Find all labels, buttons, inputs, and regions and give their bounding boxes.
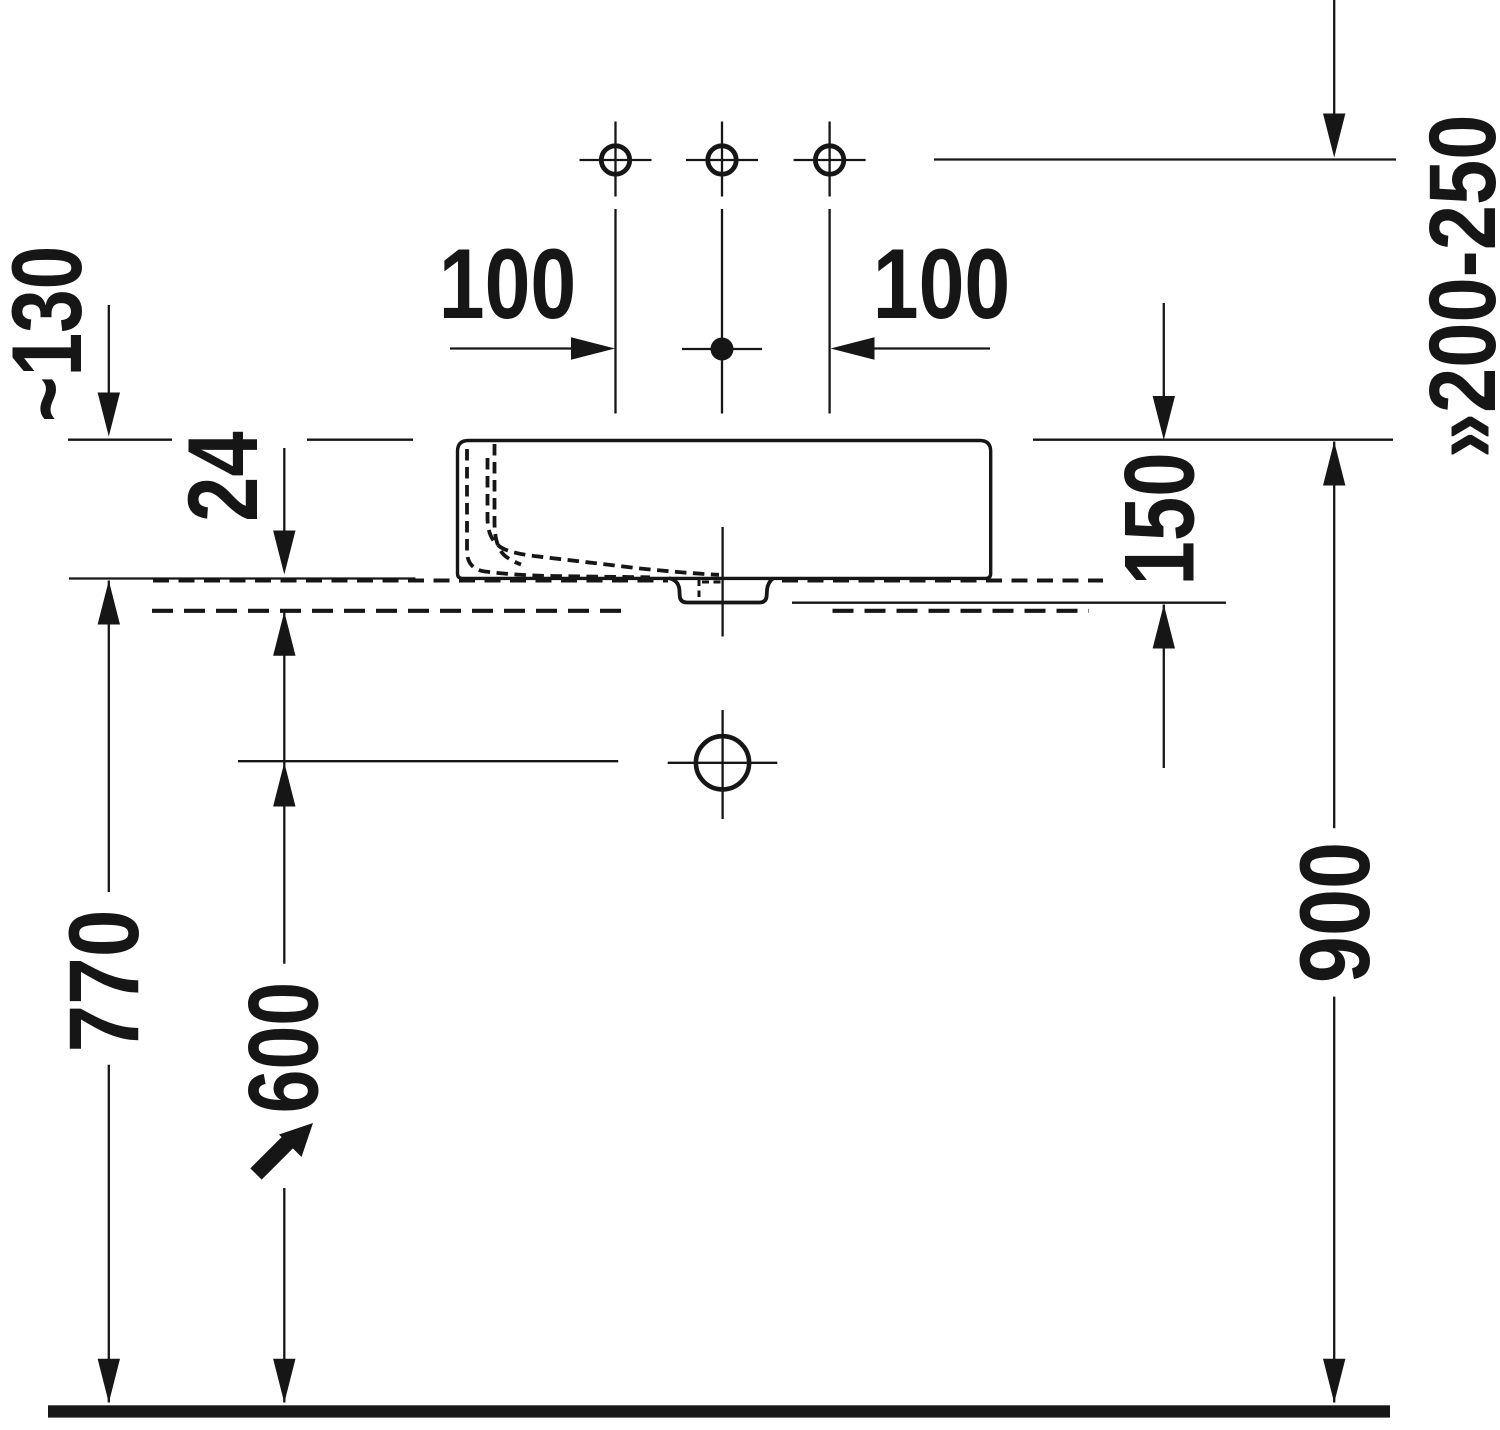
centerline stub below right tap hole — [828, 209, 830, 414]
svg-text:900: 900 — [1279, 842, 1390, 983]
centerline stub below left tap hole — [614, 209, 616, 414]
svg-text:100: 100 — [873, 228, 1011, 339]
600 dimension line lower part — [283, 1188, 285, 1403]
hidden bowl contour inner dashed — [495, 444, 522, 565]
vertical centerline through trap circle — [721, 710, 723, 819]
svg-text:~130: ~130 — [0, 246, 102, 422]
tap hole reference line right — [934, 158, 1396, 160]
drain hidden edge vertical dashed — [698, 580, 701, 599]
washbasin body outline — [458, 441, 991, 579]
basin rim reference line left segment 2 — [307, 439, 413, 441]
dimension 150 upper arrow — [1163, 303, 1165, 398]
770 dimension line lower part — [108, 1065, 110, 1403]
dimension 150 lower arrow — [1153, 605, 1175, 649]
tap hole symbol right — [794, 122, 866, 197]
hidden bowl contour middle dashed — [488, 458, 720, 575]
horizontal crosshair of trap circle — [668, 762, 778, 764]
counter underside dashed line right — [833, 609, 1090, 613]
vertical centerline through drain — [721, 527, 723, 637]
countertop hidden dashed line right part — [782, 579, 1103, 583]
svg-text:100: 100 — [439, 228, 577, 339]
dimension ~130 arrow — [108, 305, 110, 397]
centerline stub below middle tap hole — [721, 209, 723, 414]
svg-text:»200-250: »200-250 — [1410, 115, 1500, 459]
dimension 24 upper arrow — [283, 448, 285, 535]
drain hidden edge horizontal dashed — [702, 581, 721, 584]
arrow at trap height line on 600 dimension — [273, 763, 295, 807]
svg-text:600: 600 — [228, 982, 339, 1114]
countertop hidden dashed line left part — [153, 579, 668, 583]
trap connection circle — [696, 736, 749, 789]
svg-text:150: 150 — [1104, 452, 1215, 585]
basin rim reference line right — [1033, 439, 1393, 441]
hidden bowl contour outer dashed — [467, 449, 650, 577]
floor line — [48, 1405, 1390, 1417]
900 dimension line lower part — [1333, 997, 1335, 1403]
top arrow of 200-250 dimension — [1333, 0, 1335, 115]
horizontal line through dot — [682, 348, 762, 350]
dimension 770 line upper part — [98, 581, 120, 625]
dimension 100 left arrow — [450, 347, 575, 349]
dimension 100 right arrow — [874, 347, 990, 349]
tap hole symbol left — [580, 122, 652, 197]
direction arrow glyph of 600 label — [256, 1123, 313, 1174]
tap hole symbol middle — [686, 122, 758, 197]
drain outlet outline — [669, 578, 773, 602]
drain bottom reference solid line right — [792, 602, 1226, 604]
faucet center reference dot — [711, 338, 734, 361]
basin rim reference line left segment 1 — [68, 439, 172, 441]
svg-text:24: 24 — [167, 431, 278, 521]
dimension 24 lower arrow / 600 line upper part — [273, 612, 295, 656]
countertop reference solid line left — [69, 577, 416, 579]
trap height reference line — [238, 760, 618, 762]
svg-text:770: 770 — [48, 909, 159, 1052]
counter underside dashed line left — [152, 609, 622, 613]
dimension 900 upper arrow — [1323, 442, 1345, 486]
